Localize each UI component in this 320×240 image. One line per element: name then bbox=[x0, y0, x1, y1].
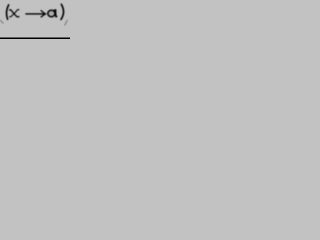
glyph x : thin stroke TR-BL bbox=[10, 10, 20, 17]
arrow shaft bbox=[26, 13, 45, 15]
glyph ) bbox=[61, 4, 64, 19]
glyph a : top join bbox=[54, 9, 56, 11]
cropped stroke right edge bbox=[65, 20, 68, 25]
glyph ( bbox=[6, 5, 8, 19]
glyph a : bowl bbox=[48, 10, 55, 17]
arrow head bbox=[41, 11, 45, 17]
glyph a : stem bbox=[55, 10, 57, 17]
background bbox=[0, 0, 70, 39]
bottom rule bbox=[0, 38, 70, 40]
glyph a : tail bbox=[56, 15, 57, 17]
cropped stroke left edge bbox=[0, 20, 3, 23]
glyph x : thick stroke TL-BR bbox=[10, 10, 19, 17]
